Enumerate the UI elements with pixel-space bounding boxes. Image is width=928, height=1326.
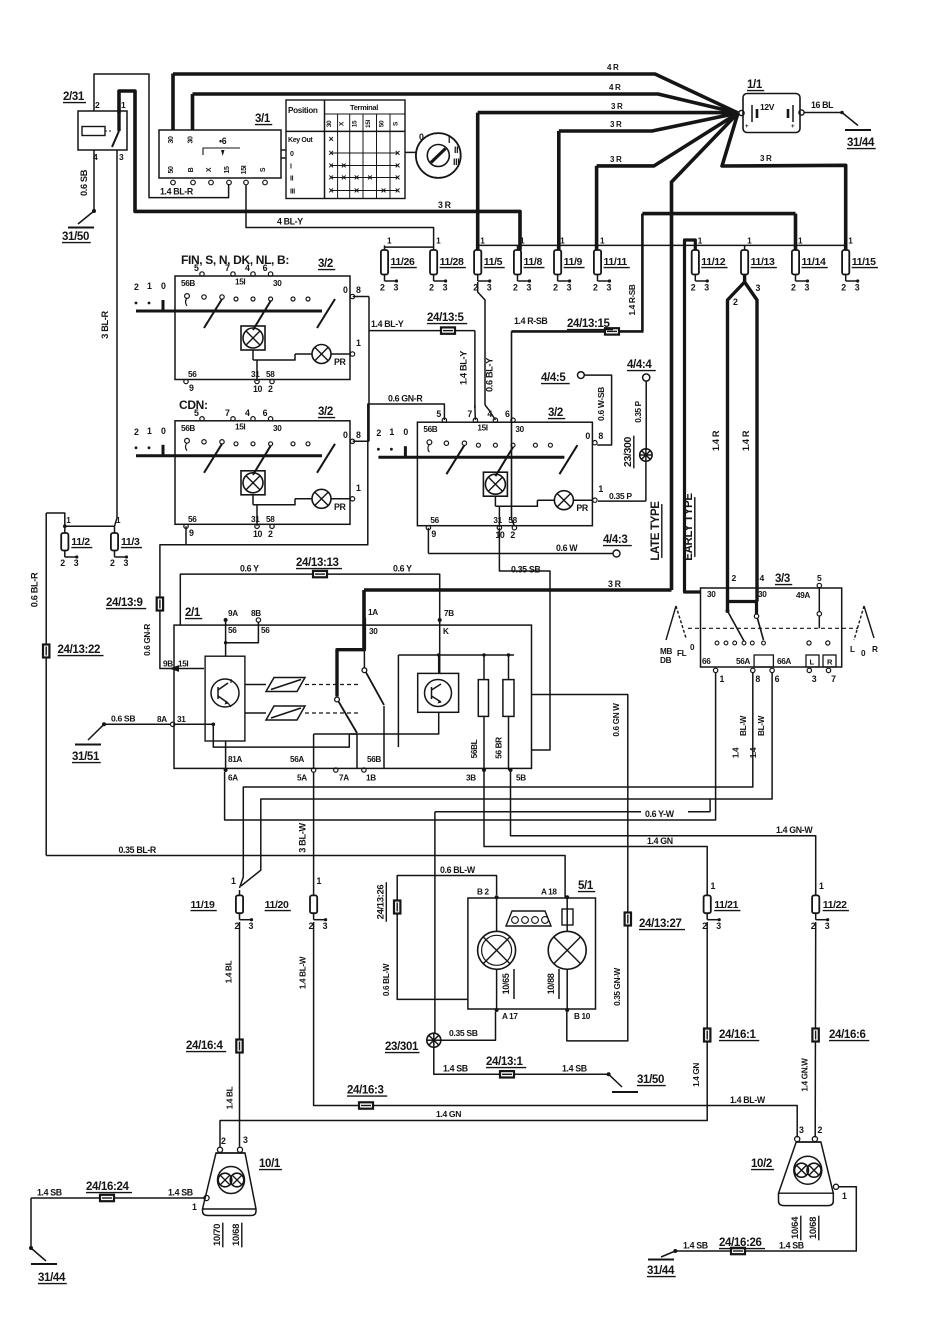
svg-text:2: 2 bbox=[818, 1125, 823, 1135]
svg-text:24/16:1: 24/16:1 bbox=[719, 1029, 757, 1041]
svg-text:15: 15 bbox=[224, 166, 231, 174]
svg-text:0.6 Y-W: 0.6 Y-W bbox=[645, 809, 675, 819]
svg-text:9B: 9B bbox=[163, 660, 173, 669]
svg-text:23/300: 23/300 bbox=[622, 436, 634, 467]
svg-text:0.6 GN W: 0.6 GN W bbox=[612, 703, 621, 737]
svg-text:1.4 BL-W: 1.4 BL-W bbox=[730, 1095, 766, 1105]
svg-text:56A: 56A bbox=[290, 755, 304, 764]
svg-text:0: 0 bbox=[161, 426, 166, 436]
svg-text:0: 0 bbox=[290, 151, 294, 158]
svg-text:3: 3 bbox=[855, 283, 860, 293]
svg-text:1: 1 bbox=[356, 483, 361, 493]
svg-text:2: 2 bbox=[553, 283, 558, 293]
svg-text:56: 56 bbox=[261, 626, 270, 635]
svg-text:10/2: 10/2 bbox=[751, 1158, 772, 1170]
svg-text:10: 10 bbox=[495, 530, 505, 540]
svg-text:24/16:26: 24/16:26 bbox=[719, 1237, 762, 1249]
svg-text:2: 2 bbox=[268, 529, 273, 539]
svg-text:DB: DB bbox=[660, 656, 672, 665]
svg-text:9: 9 bbox=[189, 528, 194, 538]
svg-text:30: 30 bbox=[707, 590, 716, 599]
svg-text:11/19: 11/19 bbox=[191, 899, 215, 911]
svg-text:1/1: 1/1 bbox=[747, 79, 763, 91]
svg-text:24/13:27: 24/13:27 bbox=[639, 918, 682, 930]
svg-text:3: 3 bbox=[704, 283, 709, 293]
svg-text:56: 56 bbox=[228, 626, 237, 635]
svg-text:×: × bbox=[395, 185, 400, 195]
svg-text:1B: 1B bbox=[366, 774, 376, 783]
svg-text:66: 66 bbox=[702, 657, 711, 666]
svg-text:31: 31 bbox=[251, 515, 260, 524]
svg-text:24/13:15: 24/13:15 bbox=[567, 318, 611, 330]
svg-text:1: 1 bbox=[389, 427, 394, 437]
svg-text:3 BL-W: 3 BL-W bbox=[298, 823, 308, 853]
svg-text:1: 1 bbox=[720, 674, 725, 684]
svg-text:58: 58 bbox=[266, 370, 275, 379]
svg-text:1.4 BL-R: 1.4 BL-R bbox=[160, 187, 194, 197]
svg-text:3: 3 bbox=[119, 152, 124, 162]
svg-text:×: × bbox=[329, 134, 334, 144]
svg-text:0.6 BL-W: 0.6 BL-W bbox=[440, 865, 476, 875]
svg-text:1.4 GN: 1.4 GN bbox=[692, 1063, 701, 1087]
svg-text:56A: 56A bbox=[736, 657, 750, 666]
svg-text:×: × bbox=[367, 172, 372, 182]
svg-text:1.4 BL: 1.4 BL bbox=[226, 1086, 235, 1109]
svg-text:56B: 56B bbox=[181, 279, 195, 288]
svg-text:0.6 GN-R: 0.6 GN-R bbox=[143, 624, 152, 656]
svg-text:10/88: 10/88 bbox=[546, 973, 556, 994]
svg-text:11/12: 11/12 bbox=[701, 256, 725, 268]
svg-text:1.4 R: 1.4 R bbox=[741, 430, 751, 451]
svg-text:11/5: 11/5 bbox=[484, 256, 503, 268]
svg-text:10/68: 10/68 bbox=[231, 1224, 242, 1246]
svg-text:24/16:24: 24/16:24 bbox=[86, 1181, 130, 1193]
svg-text:24/13:1: 24/13:1 bbox=[486, 1056, 524, 1068]
svg-text:8: 8 bbox=[356, 430, 361, 440]
svg-text:1.4: 1.4 bbox=[749, 747, 758, 758]
svg-text:1: 1 bbox=[121, 100, 126, 110]
svg-text:2: 2 bbox=[134, 427, 139, 437]
svg-text:4: 4 bbox=[245, 263, 250, 273]
svg-text:3/2: 3/2 bbox=[548, 407, 563, 419]
svg-text:9A: 9A bbox=[228, 609, 238, 618]
svg-text:×: × bbox=[395, 172, 400, 182]
svg-text:6: 6 bbox=[263, 408, 268, 418]
svg-text:1: 1 bbox=[231, 876, 236, 886]
svg-text:6: 6 bbox=[263, 263, 268, 273]
svg-text:3: 3 bbox=[607, 283, 612, 293]
svg-text:56B: 56B bbox=[181, 424, 195, 433]
svg-text:1.4 SB: 1.4 SB bbox=[37, 1188, 62, 1198]
svg-text:LATE TYPE: LATE TYPE bbox=[650, 501, 662, 561]
svg-text:24/16:4: 24/16:4 bbox=[186, 1040, 224, 1052]
svg-text:0: 0 bbox=[343, 285, 348, 295]
svg-text:7: 7 bbox=[225, 263, 230, 273]
svg-text:3: 3 bbox=[323, 921, 328, 931]
svg-text:7B: 7B bbox=[444, 609, 454, 618]
svg-text:2: 2 bbox=[732, 573, 737, 583]
svg-text:0.35 SB: 0.35 SB bbox=[511, 565, 540, 575]
svg-text:1: 1 bbox=[356, 338, 361, 348]
svg-text:2: 2 bbox=[691, 283, 696, 293]
svg-text:×: × bbox=[341, 172, 346, 182]
svg-text:24/13:13: 24/13:13 bbox=[296, 557, 339, 569]
svg-text:3 R: 3 R bbox=[610, 155, 622, 164]
svg-text:56: 56 bbox=[188, 515, 197, 524]
svg-text:31/51: 31/51 bbox=[72, 751, 100, 763]
svg-text:3 R: 3 R bbox=[760, 154, 772, 163]
svg-text:×: × bbox=[329, 148, 334, 158]
svg-text:2: 2 bbox=[733, 297, 738, 307]
svg-text:24/16:6: 24/16:6 bbox=[829, 1029, 866, 1041]
svg-text:7: 7 bbox=[225, 408, 230, 418]
svg-text:2: 2 bbox=[513, 283, 518, 293]
svg-text:0.6 Y: 0.6 Y bbox=[240, 564, 259, 574]
svg-text:1: 1 bbox=[317, 876, 322, 886]
svg-text:S: S bbox=[260, 167, 267, 172]
svg-text:3: 3 bbox=[527, 283, 532, 293]
svg-text:3: 3 bbox=[756, 283, 761, 293]
svg-text:11/3: 11/3 bbox=[121, 536, 140, 548]
svg-text:0.6 BL-Y: 0.6 BL-Y bbox=[485, 358, 495, 392]
svg-text:B 10: B 10 bbox=[574, 1012, 591, 1021]
svg-text:1: 1 bbox=[819, 881, 824, 891]
svg-text:0.35 BL-R: 0.35 BL-R bbox=[119, 845, 157, 855]
svg-text:1.4 SB: 1.4 SB bbox=[443, 1064, 468, 1074]
svg-text:3 R: 3 R bbox=[438, 200, 452, 210]
svg-text:1: 1 bbox=[598, 484, 603, 494]
svg-text:11/21: 11/21 bbox=[714, 899, 738, 911]
svg-text:49A: 49A bbox=[796, 591, 810, 600]
svg-text:3: 3 bbox=[249, 921, 254, 931]
svg-text:BL-W: BL-W bbox=[757, 715, 766, 736]
svg-text:56: 56 bbox=[188, 370, 197, 379]
svg-text:31/50: 31/50 bbox=[62, 231, 89, 243]
svg-text:5: 5 bbox=[194, 408, 199, 418]
svg-text:30: 30 bbox=[273, 424, 282, 433]
svg-text:8: 8 bbox=[755, 674, 760, 684]
svg-text:3/2: 3/2 bbox=[318, 406, 333, 418]
svg-text:3 R: 3 R bbox=[611, 102, 623, 111]
svg-text:6A: 6A bbox=[228, 774, 238, 783]
svg-text:III: III bbox=[290, 189, 295, 196]
svg-text:K: K bbox=[443, 627, 449, 636]
svg-text:1.4 SB: 1.4 SB bbox=[168, 1188, 193, 1198]
svg-text:1.4 SB: 1.4 SB bbox=[562, 1064, 587, 1074]
svg-text:4 R: 4 R bbox=[609, 83, 621, 92]
svg-text:4 BL-Y: 4 BL-Y bbox=[277, 217, 303, 227]
svg-text:2: 2 bbox=[791, 283, 796, 293]
svg-text:5B: 5B bbox=[516, 774, 526, 783]
svg-text:2: 2 bbox=[429, 283, 434, 293]
svg-text:1.4 SB: 1.4 SB bbox=[779, 1241, 804, 1251]
svg-text:10/70: 10/70 bbox=[212, 1224, 223, 1246]
svg-text:30: 30 bbox=[188, 136, 195, 144]
svg-text:2: 2 bbox=[510, 530, 515, 540]
svg-text:11/9: 11/9 bbox=[564, 256, 583, 268]
svg-text:15I: 15I bbox=[178, 660, 188, 669]
svg-text:Key Out: Key Out bbox=[288, 137, 313, 144]
svg-text:10/1: 10/1 bbox=[259, 1158, 281, 1170]
svg-text:×: × bbox=[381, 185, 386, 195]
svg-text:8: 8 bbox=[356, 285, 361, 295]
svg-text:5A: 5A bbox=[297, 774, 307, 783]
svg-text:PR: PR bbox=[334, 357, 347, 367]
svg-text:3 R: 3 R bbox=[610, 120, 622, 129]
svg-text:11/15: 11/15 bbox=[852, 256, 876, 268]
svg-text:A 17: A 17 bbox=[502, 1012, 518, 1021]
svg-text:3: 3 bbox=[567, 283, 572, 293]
svg-text:II: II bbox=[290, 176, 294, 183]
svg-text:15: 15 bbox=[351, 120, 358, 127]
svg-text:2/1: 2/1 bbox=[185, 607, 201, 619]
svg-text:2: 2 bbox=[376, 428, 381, 438]
svg-text:3/2: 3/2 bbox=[318, 258, 333, 270]
svg-text:X: X bbox=[206, 167, 213, 172]
svg-text:PR: PR bbox=[334, 502, 347, 512]
svg-text:4: 4 bbox=[245, 408, 250, 418]
svg-text:0: 0 bbox=[585, 431, 590, 441]
svg-text:23/301: 23/301 bbox=[385, 1041, 419, 1053]
svg-text:3: 3 bbox=[805, 283, 810, 293]
svg-text:1: 1 bbox=[147, 281, 152, 291]
svg-text:PR: PR bbox=[576, 503, 589, 513]
svg-text:58: 58 bbox=[508, 516, 517, 525]
svg-text:50: 50 bbox=[378, 120, 385, 127]
svg-text:R: R bbox=[872, 645, 878, 654]
svg-text:11/28: 11/28 bbox=[440, 256, 464, 268]
svg-text:3: 3 bbox=[394, 283, 399, 293]
svg-text:3/1: 3/1 bbox=[255, 113, 271, 125]
svg-text:2: 2 bbox=[268, 384, 273, 394]
svg-text:3 BL-R: 3 BL-R bbox=[100, 311, 110, 339]
svg-text:7: 7 bbox=[831, 674, 836, 684]
svg-text:5/1: 5/1 bbox=[578, 880, 594, 892]
svg-text:11/20: 11/20 bbox=[265, 899, 289, 911]
svg-text:10: 10 bbox=[253, 529, 263, 539]
svg-text:×: × bbox=[341, 160, 346, 170]
svg-text:24/13:5: 24/13:5 bbox=[427, 312, 465, 324]
svg-text:EARLY TYPE: EARLY TYPE bbox=[683, 493, 695, 561]
svg-text:15I: 15I bbox=[477, 424, 487, 433]
svg-text:24/13:26: 24/13:26 bbox=[376, 885, 387, 920]
svg-text:31: 31 bbox=[251, 370, 260, 379]
svg-text:×: × bbox=[395, 148, 400, 158]
svg-text:0.6 BL-W: 0.6 BL-W bbox=[382, 963, 391, 996]
svg-text:0.35 P: 0.35 P bbox=[634, 400, 643, 422]
svg-text:81A: 81A bbox=[228, 755, 242, 764]
svg-text:1: 1 bbox=[842, 1191, 847, 1201]
svg-text:8A: 8A bbox=[157, 715, 167, 724]
svg-text:10/68: 10/68 bbox=[808, 1217, 819, 1239]
svg-text:0.6 W: 0.6 W bbox=[556, 543, 578, 553]
svg-text:1.4 BL-Y: 1.4 BL-Y bbox=[459, 351, 469, 385]
svg-text:4: 4 bbox=[760, 573, 765, 583]
svg-text:MB: MB bbox=[660, 647, 672, 656]
svg-text:10/64: 10/64 bbox=[790, 1216, 801, 1239]
svg-text:Terminal: Terminal bbox=[350, 103, 378, 112]
svg-text:0.6 W-SB: 0.6 W-SB bbox=[596, 387, 606, 421]
svg-text:×: × bbox=[354, 172, 359, 182]
svg-text:56 BR: 56 BR bbox=[495, 737, 504, 759]
svg-text:3: 3 bbox=[812, 674, 817, 684]
svg-text:2: 2 bbox=[110, 558, 115, 568]
svg-text:B: B bbox=[188, 167, 195, 172]
svg-text:×: × bbox=[329, 160, 334, 170]
svg-text:1.4 BL-W: 1.4 BL-W bbox=[299, 956, 308, 989]
svg-text:30: 30 bbox=[326, 120, 333, 127]
svg-text:3/3: 3/3 bbox=[775, 573, 790, 585]
svg-text:1.4 GN: 1.4 GN bbox=[436, 1109, 461, 1119]
svg-text:×: × bbox=[395, 160, 400, 170]
svg-text:2: 2 bbox=[95, 100, 100, 110]
svg-text:7A: 7A bbox=[339, 774, 349, 783]
svg-text:31/44: 31/44 bbox=[647, 1265, 675, 1277]
svg-text:1: 1 bbox=[711, 881, 716, 891]
svg-text:I: I bbox=[448, 135, 450, 145]
svg-text:•6: •6 bbox=[219, 136, 227, 146]
svg-text:2: 2 bbox=[593, 283, 598, 293]
svg-text:3 R: 3 R bbox=[608, 579, 622, 589]
svg-text:9: 9 bbox=[431, 529, 436, 539]
svg-text:56B: 56B bbox=[367, 755, 381, 764]
svg-text:2: 2 bbox=[60, 558, 65, 568]
svg-text:FL: FL bbox=[677, 649, 687, 658]
svg-text:2: 2 bbox=[380, 283, 385, 293]
svg-text:15I: 15I bbox=[241, 165, 248, 174]
svg-text:4/4:5: 4/4:5 bbox=[541, 372, 566, 384]
svg-text:2: 2 bbox=[221, 1136, 226, 1146]
svg-text:0.6 Y: 0.6 Y bbox=[393, 564, 412, 574]
svg-text:×: × bbox=[329, 172, 334, 182]
svg-text:12V: 12V bbox=[760, 102, 775, 112]
svg-text:7: 7 bbox=[467, 409, 472, 419]
svg-text:24/16:3: 24/16:3 bbox=[347, 1085, 384, 1097]
svg-text:0.6 SB: 0.6 SB bbox=[111, 714, 135, 724]
svg-text:30: 30 bbox=[515, 425, 524, 434]
svg-text:2: 2 bbox=[134, 282, 139, 292]
svg-text:1.4 BL: 1.4 BL bbox=[225, 960, 234, 983]
svg-text:11/2: 11/2 bbox=[71, 536, 90, 548]
svg-text:1.4 GN.W: 1.4 GN.W bbox=[801, 1058, 810, 1092]
svg-text:30: 30 bbox=[273, 279, 282, 288]
svg-text:4/4:3: 4/4:3 bbox=[603, 534, 627, 546]
svg-text:31/44: 31/44 bbox=[38, 1272, 66, 1284]
svg-text:1.4 SB: 1.4 SB bbox=[683, 1241, 708, 1251]
svg-text:L: L bbox=[850, 645, 855, 654]
svg-text:3: 3 bbox=[243, 1135, 248, 1145]
svg-text:31: 31 bbox=[177, 715, 186, 724]
svg-text:10: 10 bbox=[253, 384, 263, 394]
svg-text:1.4 GN-W: 1.4 GN-W bbox=[776, 825, 813, 835]
svg-text:24/13:22: 24/13:22 bbox=[58, 644, 101, 656]
svg-text:0.6 GN-R: 0.6 GN-R bbox=[388, 394, 423, 404]
svg-text:15I: 15I bbox=[365, 119, 372, 128]
svg-text:31/50: 31/50 bbox=[637, 1074, 664, 1086]
svg-text:66A: 66A bbox=[777, 657, 791, 666]
svg-text:1: 1 bbox=[147, 426, 152, 436]
svg-text:15I: 15I bbox=[235, 422, 245, 431]
svg-text:31: 31 bbox=[493, 516, 502, 525]
svg-text:11/8: 11/8 bbox=[524, 256, 543, 268]
svg-text:8: 8 bbox=[598, 431, 603, 441]
svg-text:11/11: 11/11 bbox=[604, 256, 628, 268]
svg-text:3: 3 bbox=[825, 921, 830, 931]
svg-text:3: 3 bbox=[124, 558, 129, 568]
svg-text:56B: 56B bbox=[423, 425, 437, 434]
svg-text:1.4: 1.4 bbox=[732, 747, 741, 758]
svg-text:1.4 GN: 1.4 GN bbox=[647, 836, 673, 846]
svg-text:A 18: A 18 bbox=[541, 888, 557, 897]
svg-text:0.35 GN-W: 0.35 GN-W bbox=[613, 967, 622, 1005]
svg-text:11/13: 11/13 bbox=[751, 256, 775, 268]
svg-text:11/22: 11/22 bbox=[823, 899, 847, 911]
svg-text:58: 58 bbox=[266, 515, 275, 524]
svg-text:0: 0 bbox=[403, 427, 408, 437]
svg-text:11/14: 11/14 bbox=[802, 256, 826, 268]
svg-text:3: 3 bbox=[799, 1125, 804, 1135]
svg-text:50: 50 bbox=[168, 166, 175, 174]
svg-text:1A: 1A bbox=[368, 608, 378, 617]
svg-text:30: 30 bbox=[369, 627, 378, 636]
svg-text:1: 1 bbox=[192, 1202, 197, 1212]
svg-text:15I: 15I bbox=[235, 278, 245, 287]
svg-text:1.4 R-SB: 1.4 R-SB bbox=[628, 284, 637, 315]
svg-text:BL-W: BL-W bbox=[739, 715, 748, 736]
svg-text:III: III bbox=[453, 157, 459, 167]
svg-text:Position: Position bbox=[288, 106, 318, 115]
svg-text:5: 5 bbox=[194, 263, 199, 273]
svg-text:10/65: 10/65 bbox=[501, 973, 511, 994]
svg-text:2: 2 bbox=[841, 283, 846, 293]
svg-text:30: 30 bbox=[758, 590, 767, 599]
svg-text:5: 5 bbox=[817, 573, 822, 583]
svg-text:0.35 SB: 0.35 SB bbox=[449, 1028, 478, 1038]
svg-text:3: 3 bbox=[716, 921, 721, 931]
svg-text:4/4:4: 4/4:4 bbox=[627, 359, 652, 371]
svg-text:56: 56 bbox=[430, 516, 439, 525]
svg-text:2/31: 2/31 bbox=[63, 91, 85, 103]
svg-text:0: 0 bbox=[161, 281, 166, 291]
svg-text:0.6 SB: 0.6 SB bbox=[79, 169, 89, 196]
svg-text:B 2: B 2 bbox=[477, 888, 489, 897]
svg-text:3: 3 bbox=[487, 283, 492, 293]
svg-text:0.35 P: 0.35 P bbox=[609, 491, 632, 501]
svg-text:6: 6 bbox=[505, 409, 510, 419]
svg-text:31/44: 31/44 bbox=[847, 137, 875, 149]
svg-text:56BL: 56BL bbox=[470, 739, 479, 758]
svg-text:16 BL: 16 BL bbox=[811, 100, 834, 110]
svg-text:6: 6 bbox=[775, 674, 780, 684]
svg-text:1.4 R: 1.4 R bbox=[711, 430, 721, 451]
svg-text:II: II bbox=[454, 145, 458, 155]
svg-text:30: 30 bbox=[168, 136, 175, 144]
svg-text:3: 3 bbox=[74, 558, 79, 568]
svg-text:×: × bbox=[329, 185, 334, 195]
svg-text:0: 0 bbox=[343, 430, 348, 440]
svg-text:9: 9 bbox=[189, 383, 194, 393]
svg-text:11/26: 11/26 bbox=[391, 256, 415, 268]
svg-text:0: 0 bbox=[419, 132, 424, 142]
svg-text:5: 5 bbox=[436, 409, 441, 419]
svg-text:3: 3 bbox=[443, 283, 448, 293]
svg-text:4 R: 4 R bbox=[607, 63, 619, 72]
svg-text:1.4 BL-Y: 1.4 BL-Y bbox=[371, 319, 404, 329]
svg-text:1.4 R-SB: 1.4 R-SB bbox=[514, 316, 547, 326]
svg-text:24/13:9: 24/13:9 bbox=[106, 597, 143, 609]
svg-text:3B: 3B bbox=[466, 774, 476, 783]
svg-text:8B: 8B bbox=[251, 609, 261, 618]
